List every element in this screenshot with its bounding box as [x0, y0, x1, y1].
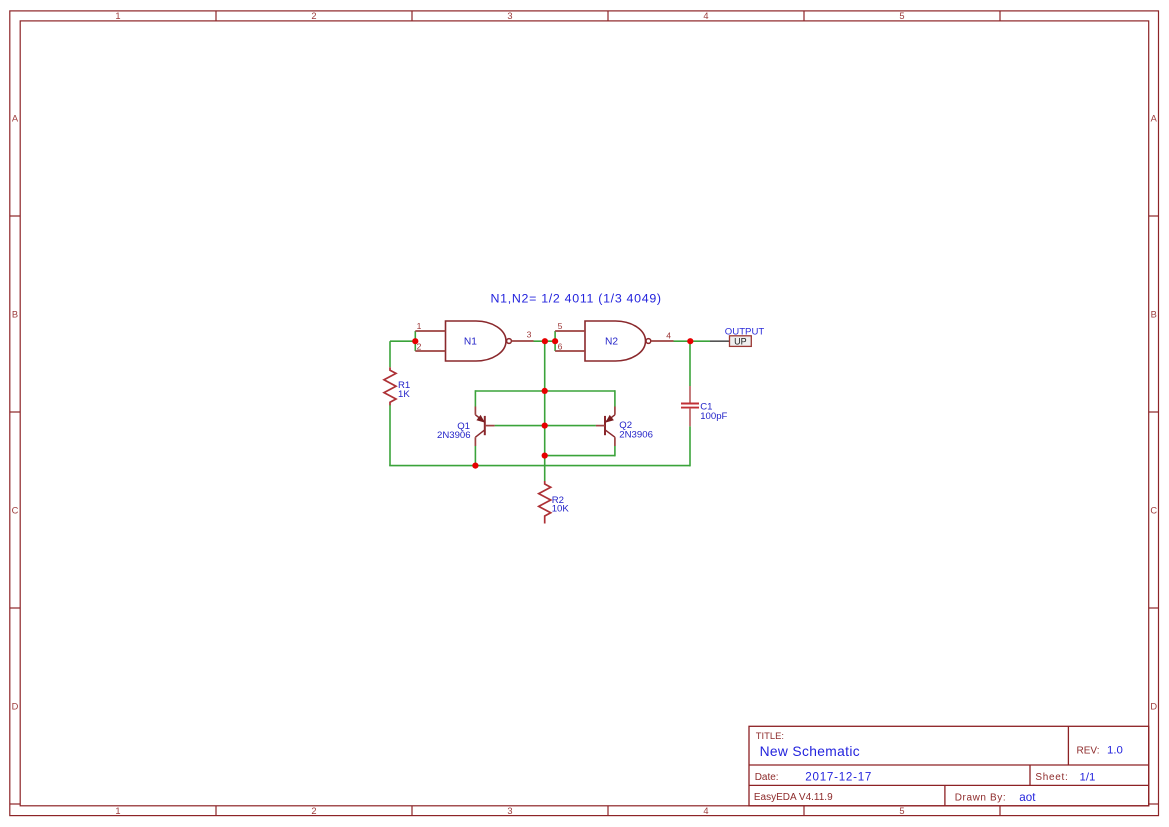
svg-text:Drawn By:: Drawn By: [955, 792, 1007, 803]
wire base rail Q1-Q2 [495, 425, 596, 427]
svg-text:EasyEDA V4.11.9: EasyEDA V4.11.9 [754, 792, 833, 803]
svg-text:TITLE:: TITLE: [756, 730, 784, 741]
svg-text:3: 3 [507, 11, 512, 21]
value label R1 1K [398, 380, 410, 400]
svg-text:A: A [1151, 113, 1158, 123]
resistor R2 [539, 481, 551, 524]
svg-text:C: C [1150, 505, 1157, 515]
note: gate type annotation [491, 291, 662, 305]
wire Q1 collector drop [474, 446, 476, 466]
junction dot bottom rail Q1 collector [472, 463, 478, 469]
svg-text:C: C [12, 505, 19, 515]
svg-text:N1: N1 [464, 337, 477, 348]
svg-text:N1,N2= 1/2 4011 (1/3 4049): N1,N2= 1/2 4011 (1/3 4049) [491, 291, 662, 305]
junction dot N1 output [542, 338, 548, 344]
svg-text:B: B [1151, 309, 1157, 319]
svg-text:D: D [12, 701, 19, 711]
pin 4 of N2 [651, 340, 673, 342]
op-amp U1 is not present; NAND gate N1 [446, 321, 512, 361]
svg-text:1: 1 [115, 11, 120, 21]
transistor Q2 [596, 407, 615, 447]
label N1 [464, 337, 477, 348]
value label C1 100pF [700, 402, 727, 423]
pin number 2 [417, 341, 422, 351]
wire bottom rail [389, 465, 690, 467]
svg-text:2: 2 [311, 806, 316, 816]
svg-text:Date:: Date: [755, 772, 779, 783]
svg-text:B: B [12, 309, 18, 319]
wire emitter rail [475, 390, 615, 406]
junction dot N1 input tie [412, 338, 418, 344]
svg-text:4: 4 [703, 806, 708, 816]
svg-text:OUTPUT: OUTPUT [725, 326, 765, 337]
svg-text:2N3906: 2N3906 [619, 430, 653, 441]
pin 3 of N1 [512, 340, 534, 342]
svg-text:REV:: REV: [1077, 745, 1100, 756]
pin number 5 [558, 321, 563, 331]
pin 5 of N2 [555, 330, 585, 332]
label Q1 2N3906 [437, 421, 471, 441]
pin 6 of N2 [555, 350, 585, 352]
junction dot N2 output [687, 338, 693, 344]
svg-text:4: 4 [703, 11, 708, 21]
wire R1 bottom to bottom rail [389, 405, 391, 466]
capacitor C1 [681, 386, 699, 426]
svg-text:aot: aot [1019, 791, 1036, 804]
wire collector return [545, 446, 615, 456]
wire net from R1 top to N1 inputs [390, 331, 415, 367]
resistor R1 [384, 367, 396, 405]
svg-text:5: 5 [899, 806, 904, 816]
svg-text:Sheet:: Sheet: [1035, 772, 1068, 783]
svg-text:5: 5 [899, 11, 904, 21]
junction dot base rail [542, 423, 548, 429]
pin number 4 [666, 331, 671, 341]
svg-text:3: 3 [507, 806, 512, 816]
svg-text:1: 1 [115, 806, 120, 816]
NAND gate N2 [585, 321, 651, 361]
junction dot N2 input tie [552, 338, 558, 344]
junction dot collector return [542, 453, 548, 459]
svg-text:New Schematic: New Schematic [760, 744, 860, 759]
svg-text:D: D [1150, 701, 1157, 711]
junction dot emitter rail [542, 388, 548, 394]
svg-text:100pF: 100pF [700, 411, 727, 422]
svg-text:1.0: 1.0 [1107, 745, 1123, 757]
pin 2 of N1 [415, 350, 445, 352]
svg-text:1K: 1K [398, 389, 410, 400]
pin number 1 [417, 321, 422, 331]
svg-text:1: 1 [417, 321, 422, 331]
svg-text:2: 2 [311, 11, 316, 21]
svg-text:6: 6 [558, 341, 563, 351]
svg-text:3: 3 [527, 330, 532, 340]
svg-text:2017-12-17: 2017-12-17 [805, 771, 872, 784]
wire N2 output to net flag [674, 340, 711, 342]
title block (decorative) [749, 726, 1149, 806]
pin 1 of N1 [415, 330, 445, 332]
svg-text:10K: 10K [552, 504, 570, 515]
transistor Q1 [475, 407, 494, 447]
svg-text:4: 4 [666, 331, 671, 341]
label N2 [605, 337, 618, 348]
pin number 6 [558, 341, 563, 351]
pin number 3 [527, 330, 532, 340]
wire N1 output to N2 inputs [534, 331, 556, 351]
net flag UP (node OUTPUT) [710, 336, 751, 347]
node label OUTPUT [725, 326, 765, 337]
value label R2 10K [552, 495, 570, 514]
svg-text:UP: UP [734, 336, 747, 346]
svg-text:A: A [12, 113, 19, 123]
svg-text:5: 5 [558, 321, 563, 331]
svg-text:1/1: 1/1 [1080, 772, 1096, 784]
wire C1 branch [689, 341, 691, 466]
label Q2 2N3906 [619, 420, 653, 441]
svg-text:N2: N2 [605, 337, 618, 348]
wire center vertical to R2 [544, 341, 546, 481]
svg-text:2N3906: 2N3906 [437, 430, 471, 441]
